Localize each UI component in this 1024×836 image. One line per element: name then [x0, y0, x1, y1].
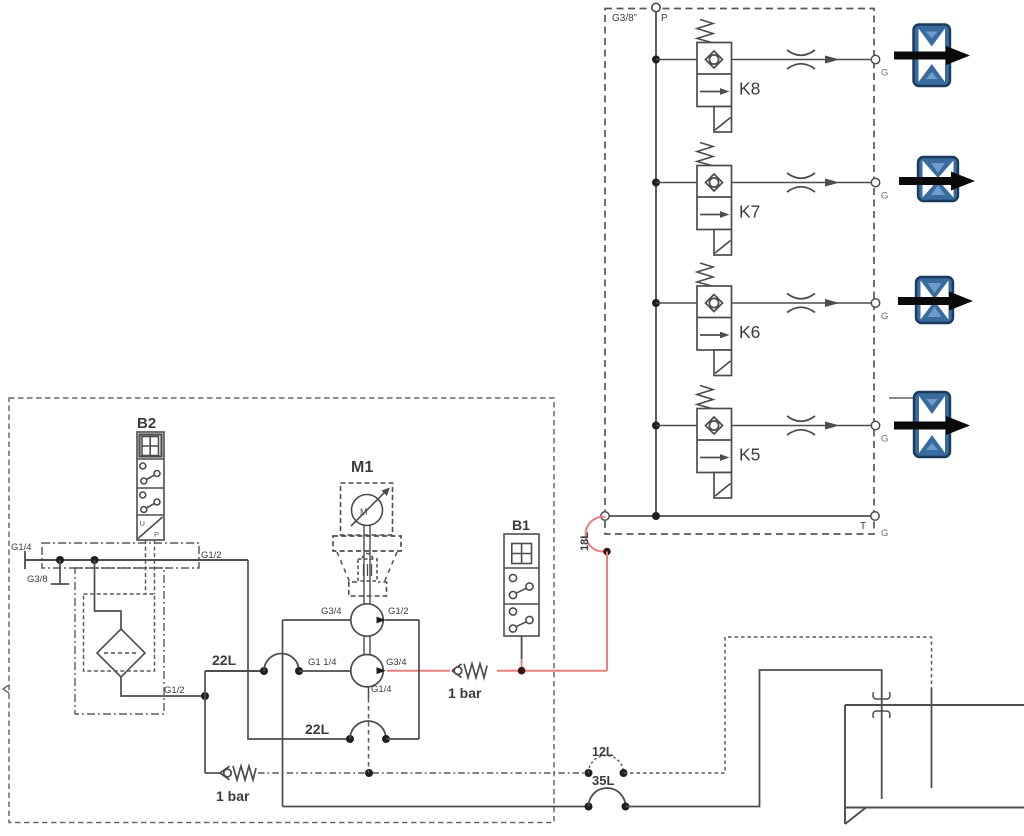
- svg-text:G: G: [881, 191, 888, 202]
- svg-text:K8: K8: [739, 79, 760, 99]
- svg-text:G1/2: G1/2: [164, 685, 185, 696]
- node: B1 red junction: [518, 667, 526, 675]
- flow direction arrow row K7: [825, 179, 840, 187]
- wire: stage1 pressure out: [385, 619, 419, 621]
- actuator icon row K5 (open symbol): [914, 392, 950, 457]
- hose arc 18L (red): [586, 517, 607, 552]
- wire: case drain (dashed): [368, 686, 370, 698]
- wire: 22L suction line: [205, 670, 264, 672]
- coupling (dashed bracket): [333, 536, 401, 551]
- svg-text:B1: B1: [512, 517, 530, 533]
- wire: to pump box right edge: [386, 738, 419, 740]
- node: manifold suction junction: [91, 556, 99, 564]
- black flow arrow K8: [894, 46, 970, 65]
- port circle G row K6: [871, 299, 879, 307]
- svg-text:12L: 12L: [592, 745, 614, 759]
- svg-text:22L: 22L: [305, 721, 330, 737]
- port circle G row K5: [871, 421, 879, 429]
- wire: manifold main line: [25, 559, 248, 561]
- port arrow stage2: [377, 667, 387, 674]
- motor arrow: [351, 492, 385, 526]
- svg-text:G3/4: G3/4: [321, 606, 342, 617]
- pump stage 1: [351, 604, 383, 636]
- svg-text:U: U: [140, 519, 145, 528]
- mounting bracket (dashed U): [349, 582, 387, 596]
- throttle (flow restrictor) row K5: [787, 416, 815, 435]
- port P circle: [652, 3, 660, 11]
- svg-text:B2: B2: [137, 415, 156, 432]
- wire stub above K5 icon: [889, 397, 914, 399]
- port arrow stage1: [377, 617, 387, 624]
- valve K5 (2/2 solenoid valve): [697, 386, 732, 499]
- svg-text:1 bar: 1 bar: [448, 685, 482, 701]
- svg-text:G: G: [881, 68, 888, 79]
- node: 22L arc right: [295, 667, 303, 675]
- svg-text:G3/8: G3/8: [27, 574, 48, 585]
- motor M1 (dashed box): [341, 483, 393, 535]
- pump stage 2: [351, 655, 383, 687]
- wire: pump box left edge: [282, 620, 284, 807]
- port circle G row K8: [871, 55, 879, 63]
- actuator icon row K8 (open symbol): [914, 25, 951, 87]
- flow direction arrow row K6: [825, 299, 840, 307]
- svg-text:K7: K7: [739, 202, 760, 222]
- black flow arrow K6: [898, 292, 973, 311]
- pressure switch B1: [504, 534, 539, 636]
- svg-text:P: P: [154, 530, 159, 539]
- wire: drain pipe inside tank: [931, 688, 933, 788]
- check valve 1 bar (left): [220, 766, 256, 780]
- black flow arrow K5: [894, 416, 970, 435]
- sensing lines B2 (dashed): [145, 540, 147, 594]
- port circle G row K7: [871, 178, 879, 186]
- node: manifold G3/8 junction: [56, 556, 64, 564]
- coupling at tank top: [873, 692, 890, 699]
- wire: manifold to filter: [95, 560, 122, 629]
- valve K6 (2/2 solenoid valve): [697, 263, 732, 376]
- node: 12L arc right: [620, 769, 628, 777]
- power unit enclosure (dash-dot box): [9, 398, 554, 823]
- wire: K6 row line: [656, 302, 872, 304]
- node: P junction for K8: [652, 56, 660, 64]
- svg-text:G1/2: G1/2: [388, 606, 409, 617]
- node: 22L arc left: [260, 667, 268, 675]
- wire: P supply vertical: [655, 12, 657, 517]
- svg-text:G: G: [881, 311, 888, 322]
- wire: stage1 suction from box edge: [283, 619, 352, 621]
- tank: [845, 705, 1024, 824]
- hose arc 22L: [264, 654, 299, 672]
- filter F1 (diamond): [97, 629, 145, 677]
- wire: drain to tank (dotted): [624, 637, 932, 773]
- wire: K5 row line: [656, 425, 872, 427]
- hose arc 12L (dotted): [589, 756, 624, 774]
- svg-text:T: T: [860, 521, 866, 532]
- svg-text:G: G: [881, 528, 888, 539]
- svg-text:35L: 35L: [592, 773, 614, 788]
- wire: junction riser: [204, 671, 206, 773]
- svg-text:K6: K6: [739, 322, 760, 342]
- throttle (flow restrictor) row K7: [787, 173, 815, 192]
- node: P junction for K5: [652, 422, 660, 430]
- wire: red vertical 18L: [606, 552, 608, 671]
- svg-text:K5: K5: [739, 445, 760, 465]
- filter dashed sense box: [84, 594, 155, 671]
- port end cap G1/4: [24, 551, 26, 569]
- wire: drain line (dash-dot): [258, 772, 589, 774]
- border tick: [3, 685, 9, 693]
- node: P junction for K7: [652, 179, 660, 187]
- wire: tank return T line: [605, 515, 875, 517]
- manifold block (dash-dot box): [42, 543, 199, 568]
- svg-text:22L: 22L: [212, 652, 237, 668]
- wire: suction line bottom: [283, 806, 589, 808]
- wire: manifold feed down: [248, 560, 350, 739]
- hose arc 35L: [589, 788, 626, 806]
- node: red junction below arc: [603, 548, 611, 556]
- wire: G3/8 blind port: [59, 560, 61, 584]
- hose arc 22L lower: [350, 721, 386, 739]
- node: lower 22L arc left: [346, 735, 354, 743]
- level/temperature switch B2: [137, 432, 164, 540]
- svg-text:G3/8”: G3/8”: [612, 13, 637, 24]
- node: P junction for K6: [652, 299, 660, 307]
- node: drain junction (pump case): [365, 769, 373, 777]
- throttle (flow restrictor) row K8: [787, 50, 815, 69]
- wire: red horizontal to pump: [497, 670, 607, 672]
- svg-text:G3/4: G3/4: [386, 657, 407, 668]
- wire: to pump inlet G1 1/4: [299, 670, 352, 672]
- wire: to check valve: [205, 772, 220, 774]
- actuator icon row K7 (closed symbol): [918, 157, 958, 201]
- actuator icon row K6 (closed symbol): [916, 277, 953, 323]
- svg-text:18L: 18L: [579, 532, 591, 551]
- svg-text:M1: M1: [351, 459, 373, 476]
- svg-text:G1/2: G1/2: [201, 550, 222, 561]
- wire: K8 row line: [656, 59, 872, 61]
- svg-text:G1/4: G1/4: [11, 542, 32, 553]
- throttle (flow restrictor) row K6: [787, 294, 815, 313]
- svg-text:G: G: [881, 434, 888, 445]
- wire: pump box right edge: [418, 620, 420, 739]
- node: lower 22L arc right: [382, 735, 390, 743]
- valve K7 (2/2 solenoid valve): [697, 143, 732, 256]
- wire: filter outlet G1/2: [121, 677, 205, 696]
- svg-text:1 bar: 1 bar: [216, 788, 250, 804]
- valve K8 (2/2 solenoid valve): [697, 20, 732, 133]
- svg-text:G1 1/4: G1 1/4: [308, 657, 337, 668]
- node: 35L arc left: [585, 803, 593, 811]
- internal pump (dashed): [362, 554, 373, 559]
- node: suction junction: [201, 692, 209, 700]
- wire: suction to tank: [626, 670, 882, 807]
- svg-text:G1/4: G1/4: [371, 684, 392, 695]
- motor circle: [352, 495, 383, 526]
- check valve 1 bar (pressure line): [452, 664, 487, 678]
- drive shaft: [363, 526, 365, 605]
- flow direction arrow row K5: [825, 422, 840, 430]
- filter dash-dot enclosure: [75, 568, 164, 714]
- pump interstage shaft: [363, 636, 365, 655]
- black flow arrow K7: [899, 172, 975, 191]
- svg-text:P: P: [661, 13, 668, 24]
- wire: B1 stub: [521, 636, 523, 659]
- node: 35L arc right: [622, 803, 630, 811]
- node: P-T junction: [652, 512, 660, 520]
- wire: K7 row line: [656, 182, 872, 184]
- bell housing (dashed trapezoid sides): [337, 552, 351, 585]
- valve manifold bank enclosure (dashed box): [605, 9, 874, 535]
- port circle T right: [871, 512, 879, 520]
- node: 12L arc left: [585, 769, 593, 777]
- port circle T left: [601, 512, 609, 520]
- flow direction arrow row K8: [825, 56, 840, 64]
